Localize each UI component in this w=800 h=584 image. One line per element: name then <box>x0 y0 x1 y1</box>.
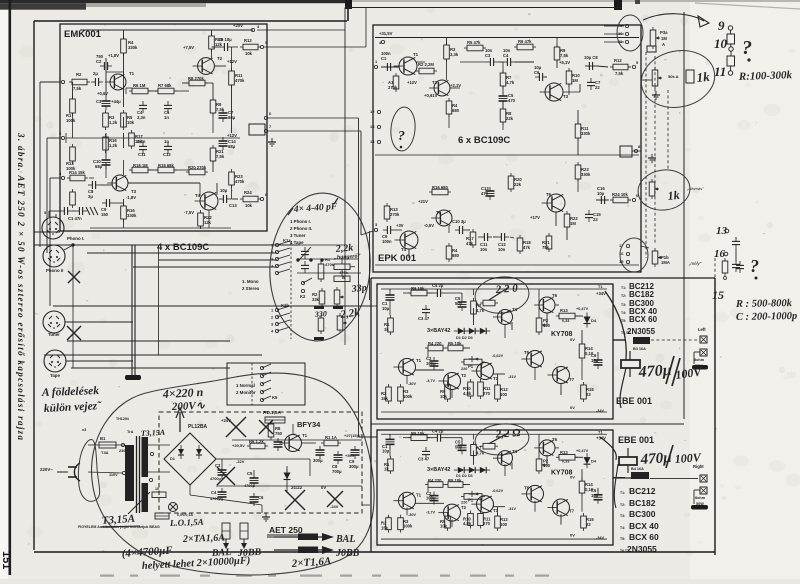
wire <box>575 315 583 317</box>
outer schematic frame left <box>33 21 35 550</box>
svg-text:R4 220: R4 220 <box>428 478 442 483</box>
capacitor crossed <box>274 441 283 443</box>
resistor R17 epk <box>470 232 476 245</box>
wire <box>597 352 599 356</box>
wire <box>174 169 189 171</box>
resistor R12 R <box>495 516 501 528</box>
capacitor C3 epk <box>489 58 491 66</box>
wire top bus <box>347 7 622 9</box>
wire <box>105 133 107 157</box>
wire <box>504 464 506 476</box>
wire <box>581 495 583 512</box>
svg-text:L.O.1,5A: L.O.1,5A <box>169 517 204 528</box>
svg-text:+31,5V: +31,5V <box>379 31 393 36</box>
svg-text:R8 270k: R8 270k <box>188 76 205 81</box>
svg-text:10μ C8: 10μ C8 <box>584 55 598 60</box>
svg-text:+12V: +12V <box>227 59 237 64</box>
wire <box>381 66 399 68</box>
wire <box>231 47 233 71</box>
wire <box>148 444 170 446</box>
splitter box <box>249 124 265 135</box>
wire <box>123 133 125 148</box>
transistor T4 <box>200 192 218 210</box>
svg-text:T4:: T4: <box>621 311 626 315</box>
svg-text:R2: R2 <box>76 72 82 77</box>
svg-text:22k: 22k <box>506 116 514 121</box>
terminal 4 epk <box>381 40 384 43</box>
wire <box>473 450 475 464</box>
switch blade <box>277 320 290 324</box>
svg-text:13: 13 <box>716 225 728 237</box>
hand X cross e <box>259 420 273 434</box>
svg-text:C12: C12 <box>163 152 171 157</box>
wire <box>189 485 191 495</box>
switch box monitor <box>227 363 305 405</box>
svg-text:15μ: 15μ <box>591 493 599 498</box>
wire vertical bus C <box>360 131 362 235</box>
wire <box>123 53 125 107</box>
terminal Right a <box>700 475 707 482</box>
wire <box>125 88 127 94</box>
transistor T2 epk <box>434 80 450 96</box>
wire <box>446 59 448 80</box>
wire <box>216 183 218 195</box>
svg-text:C4 2μ: C4 2μ <box>432 283 444 288</box>
switch blade <box>262 380 271 384</box>
wire <box>511 322 513 330</box>
hand X tuner <box>67 326 81 340</box>
resistor R23 <box>229 172 235 185</box>
svg-text:2 Stereo: 2 Stereo <box>242 286 260 291</box>
svg-text:P1: P1 <box>468 498 474 503</box>
wire <box>415 502 444 504</box>
wire bus 0 <box>34 231 60 233</box>
capacitor C1 R <box>386 438 395 440</box>
svg-text:„mély”: „mély” <box>688 261 702 266</box>
wire bus 4 <box>159 259 278 261</box>
capacitor 300u a <box>316 449 325 451</box>
diode D2 bridge <box>196 449 202 455</box>
transistor T2 R <box>444 504 461 521</box>
wire <box>448 114 450 128</box>
svg-text:BCX 60: BCX 60 <box>629 532 659 542</box>
switch K1a contact 3 <box>275 257 278 260</box>
switch blade <box>277 306 290 310</box>
resistor R13 L <box>559 313 575 319</box>
wire <box>123 219 125 228</box>
svg-text:7,5k: 7,5k <box>216 107 225 112</box>
hand wire curve upper <box>605 291 626 360</box>
svg-text:680: 680 <box>452 253 460 258</box>
capacitor C14 <box>219 140 228 142</box>
resistor R11 <box>229 71 235 85</box>
svg-text:R20 270k: R20 270k <box>188 165 207 170</box>
wire <box>448 226 450 233</box>
transistor T2 <box>198 58 215 75</box>
wire <box>502 62 504 73</box>
resistor R5 R <box>448 482 463 488</box>
wire <box>221 459 223 466</box>
resistor R9 <box>210 100 216 113</box>
svg-text:R24: R24 <box>244 190 252 195</box>
svg-text:2N3055: 2N3055 <box>627 327 656 336</box>
svg-text:D1 D2 D3: D1 D2 D3 <box>456 336 473 340</box>
capacitor C5 epk <box>499 95 508 97</box>
svg-text:P3a: P3a <box>660 30 668 35</box>
wire <box>265 416 285 418</box>
wire <box>515 61 534 63</box>
svg-text:10k: 10k <box>245 51 253 56</box>
wire <box>577 110 579 124</box>
svg-text:BCX 60: BCX 60 <box>629 315 658 324</box>
socket Tape <box>44 350 66 372</box>
svg-text:10n: 10n <box>498 247 506 252</box>
svg-text:+7,5V: +7,5V <box>183 45 194 50</box>
svg-text:-31V: -31V <box>508 507 516 511</box>
socket Phono I <box>42 217 64 239</box>
hand X cross b <box>217 467 235 485</box>
svg-text:100μ: 100μ <box>426 496 436 501</box>
svg-text:3,3k: 3,3k <box>450 52 459 57</box>
resistor R5 <box>121 113 127 127</box>
wire to pot <box>641 79 652 81</box>
socket Tuner <box>43 311 65 333</box>
svg-text:-30V: -30V <box>408 513 416 517</box>
svg-text:R13: R13 <box>560 308 568 313</box>
junction dot bus <box>71 243 74 246</box>
svg-text:100: 100 <box>500 392 508 397</box>
svg-text:R24 10k: R24 10k <box>612 192 629 197</box>
svg-text:T5:: T5: <box>621 319 626 323</box>
wire <box>211 49 213 58</box>
wire <box>39 82 41 247</box>
wire <box>389 304 391 315</box>
dashed output left <box>651 339 698 341</box>
pot slider box <box>686 70 694 83</box>
svg-text:T4: T4 <box>512 449 518 454</box>
svg-text:T3: T3 <box>131 189 137 194</box>
switch blade <box>277 269 290 273</box>
capacitor C1 epk <box>386 63 388 71</box>
capacitor C5 psu <box>250 477 259 479</box>
terminal 3 epk <box>374 228 377 231</box>
resistor R7 L <box>471 301 477 314</box>
hand X phono2 <box>68 271 80 283</box>
wire vertical bus A <box>344 8 346 246</box>
svg-text:R:100-300k: R:100-300k <box>738 69 793 83</box>
svg-text:T1: T1 <box>598 285 602 289</box>
svg-text:-34V: -34V <box>596 536 604 540</box>
svg-text:C4 2μ: C4 2μ <box>432 429 444 434</box>
switch blade <box>277 327 290 331</box>
socket Phono II <box>43 245 65 267</box>
capacitor C6 epk <box>538 73 540 81</box>
wire mid rail <box>66 137 240 139</box>
wire <box>205 82 213 84</box>
wire <box>560 383 562 395</box>
output arrow JOBB <box>274 549 326 551</box>
hand circle terminals 9-11 <box>617 15 643 51</box>
wire <box>105 58 107 97</box>
capacitor C10 epk <box>458 226 460 234</box>
hand arrow to margin <box>643 14 704 21</box>
svg-text:C5: C5 <box>247 471 253 476</box>
transistor T3 <box>112 175 128 191</box>
svg-text:1k: 1k <box>667 188 680 203</box>
resistor R4 <box>121 39 127 53</box>
potentiometer P4a <box>652 70 658 86</box>
wire <box>581 330 583 344</box>
switch blade <box>277 262 290 266</box>
wire <box>579 84 581 92</box>
svg-text:8ohm: 8ohm <box>695 496 706 500</box>
svg-text:0V: 0V <box>570 475 575 480</box>
transistor T1 <box>110 74 126 90</box>
svg-text:C10: C10 <box>93 159 101 164</box>
svg-text:R6 1M: R6 1M <box>133 83 146 88</box>
resistor R10 <box>209 36 215 49</box>
svg-text:-7,5V: -7,5V <box>184 210 194 215</box>
svg-text:T2: T2 <box>461 505 467 510</box>
resistor R13b epk <box>384 206 390 219</box>
wire <box>586 457 588 464</box>
wire <box>148 471 170 473</box>
svg-text:T3,15A: T3,15A <box>141 428 166 438</box>
wire <box>403 292 411 294</box>
capacitor C8 <box>91 181 93 189</box>
svg-text:Phono II: Phono II <box>46 268 63 273</box>
svg-text:75k: 75k <box>542 245 550 250</box>
svg-text:470: 470 <box>508 98 516 103</box>
wire +20V rail <box>80 29 253 31</box>
wire <box>406 375 408 384</box>
svg-text:-1,8V: -1,8V <box>126 195 136 200</box>
svg-text:7,5k: 7,5k <box>560 53 569 58</box>
capacitor C10 <box>102 159 111 161</box>
resistor R12 <box>243 44 258 50</box>
capacitor C2 R <box>430 495 439 497</box>
svg-text:1. Mono: 1. Mono <box>242 279 259 284</box>
wire <box>214 65 226 67</box>
wire <box>297 258 359 260</box>
svg-text:0V: 0V <box>570 405 575 410</box>
wire <box>232 46 238 48</box>
wire <box>216 458 232 460</box>
terminal 7 <box>264 129 267 132</box>
capacitor C5 R <box>458 444 467 446</box>
wire <box>66 360 133 362</box>
wire <box>555 212 557 226</box>
outer EBE frame top <box>371 277 715 279</box>
ground EMK output <box>271 138 273 142</box>
capacitor C7 epk <box>587 81 595 83</box>
svg-text:T6: T6 <box>552 437 558 442</box>
capacitor C9 300u <box>351 449 360 451</box>
terminal 11 <box>625 40 628 43</box>
svg-text:B3 16A: B3 16A <box>633 347 646 351</box>
hand dot <box>400 146 403 149</box>
switch K5 contact 2 <box>260 374 263 377</box>
svg-text:4 x BC109C: 4 x BC109C <box>157 242 209 253</box>
wire <box>114 202 124 204</box>
capacitor C4 L <box>436 289 438 297</box>
wire <box>577 138 579 155</box>
wire to lower EBE <box>358 430 360 437</box>
wire <box>301 442 316 444</box>
svg-text:470k: 470k <box>325 262 335 267</box>
transistor T1 epk <box>399 57 417 75</box>
wire +31,5V rail <box>375 37 639 39</box>
svg-text:BC182: BC182 <box>629 290 654 299</box>
resistor R21 epk <box>546 236 552 249</box>
fuse jobb <box>298 547 318 554</box>
switch blade <box>277 248 290 252</box>
svg-text:x3: x3 <box>82 428 86 432</box>
transistor T6 R <box>539 440 555 456</box>
terminal 15b <box>626 260 629 263</box>
svg-text:T5: T5 <box>524 486 530 491</box>
svg-text:4,7k: 4,7k <box>476 308 485 313</box>
wire <box>563 91 580 93</box>
diode D1 R <box>458 467 464 473</box>
wire <box>556 60 558 68</box>
svg-text:270: 270 <box>483 521 491 526</box>
wire bus 1 <box>34 244 300 246</box>
terminal Right b <box>700 487 707 494</box>
resistor R13 R <box>559 454 575 460</box>
svg-text:T3:: T3: <box>620 514 625 518</box>
diode D2 zener <box>284 473 291 480</box>
wire emk out7 <box>267 130 361 132</box>
capacitor C2 <box>103 62 105 70</box>
svg-text:C4: C4 <box>211 490 217 495</box>
svg-text:T1: T1 <box>416 358 422 363</box>
wire <box>231 85 233 133</box>
hand circle bass terminals <box>620 238 648 272</box>
wire <box>212 46 222 48</box>
svg-text:R : 500-800k: R : 500-800k <box>735 298 793 310</box>
wire <box>534 367 536 380</box>
resistor R8 pre R <box>483 443 495 449</box>
svg-text:1,2k: 1,2k <box>109 120 118 125</box>
svg-text:BFY34: BFY34 <box>297 420 321 429</box>
module EPK001 outline <box>373 25 641 272</box>
resistor R1 L <box>388 318 394 332</box>
resistor R16 <box>103 137 109 150</box>
svg-text:T2:: T2: <box>620 503 625 507</box>
switch K1a contact 1 <box>275 243 278 246</box>
wire <box>497 507 499 516</box>
terminal 16 <box>626 252 629 255</box>
svg-text:15μ: 15μ <box>591 358 599 363</box>
svg-text:15k: 15k <box>381 525 389 530</box>
wire <box>72 82 74 99</box>
svg-text:330k: 330k <box>581 131 591 136</box>
resistor R8 <box>189 80 205 86</box>
svg-text:0V: 0V <box>570 337 575 342</box>
resistor R2 vol <box>319 291 325 304</box>
transistor T3 epk <box>545 83 563 101</box>
svg-text:200V∿: 200V∿ <box>171 400 206 413</box>
svg-text:+0,6V: +0,6V <box>97 91 108 96</box>
svg-text:C4: C4 <box>503 53 509 58</box>
wire <box>568 84 570 95</box>
wire top rail L <box>381 288 607 290</box>
wire EBE divider <box>371 423 684 425</box>
resistor R4 L <box>428 345 443 351</box>
svg-text:470k: 470k <box>235 78 245 83</box>
svg-text:4700μ: 4700μ <box>210 477 221 481</box>
wire <box>586 316 588 324</box>
capacitor C8 epk <box>588 62 590 70</box>
hatch marks <box>86 207 90 215</box>
diode D2 L <box>469 328 475 334</box>
resistor R2 R <box>386 518 392 530</box>
svg-text:22: 22 <box>586 392 591 397</box>
wire <box>182 82 189 84</box>
wire bus 3 <box>87 252 277 254</box>
wire <box>467 229 470 231</box>
svg-text:9: 9 <box>718 18 725 33</box>
diode D3 L <box>480 328 486 334</box>
switch blade <box>262 396 271 400</box>
wire <box>212 113 214 133</box>
resistor R5 L <box>448 345 463 351</box>
svg-text:TrA: TrA <box>127 430 134 434</box>
wire vertical bus D <box>369 231 371 300</box>
wire bus 8 <box>44 354 262 356</box>
transistor T7 R <box>553 499 570 516</box>
potentiometer P3a <box>650 30 656 46</box>
capacitor C1 input <box>63 207 65 215</box>
svg-text:EMK001: EMK001 <box>64 29 102 40</box>
svg-text:T5:: T5: <box>620 537 625 541</box>
svg-text:12: 12 <box>370 109 375 114</box>
capacitor C3 psu <box>218 469 227 471</box>
svg-text:68μ: 68μ <box>228 144 236 149</box>
resistor R1b vol <box>318 318 324 331</box>
wire <box>473 434 475 439</box>
svg-text:+12V: +12V <box>227 133 237 138</box>
svg-text:C6 10μ: C6 10μ <box>218 37 232 42</box>
wire <box>510 237 514 238</box>
capacitor C12 epk <box>500 233 502 241</box>
svg-text:1MA: 1MA <box>661 260 670 265</box>
wire <box>473 308 475 325</box>
wire <box>389 447 391 456</box>
svg-text:100k: 100k <box>403 394 413 399</box>
svg-text:47k: 47k <box>466 241 474 246</box>
wire <box>461 293 463 298</box>
resistor R11 epk <box>575 124 581 138</box>
terminal 1 epk <box>374 65 377 68</box>
capacitor C4 <box>139 104 147 106</box>
wire <box>89 177 94 179</box>
resistor R5 epk <box>467 45 483 51</box>
resistor R3 epk <box>444 45 450 59</box>
wire mid separator <box>375 154 639 156</box>
svg-text:-3,7V: -3,7V <box>426 379 436 383</box>
scan blob top center <box>345 0 352 9</box>
transistor T1 L <box>399 359 416 376</box>
switch K1b contact 2 <box>275 315 278 318</box>
hand arrow up <box>179 412 181 432</box>
wire <box>208 210 210 228</box>
terminal 14 <box>377 140 380 143</box>
diode D4 L <box>584 317 591 324</box>
svg-text:T2:: T2: <box>621 294 626 298</box>
resistor R18 <box>132 167 148 173</box>
